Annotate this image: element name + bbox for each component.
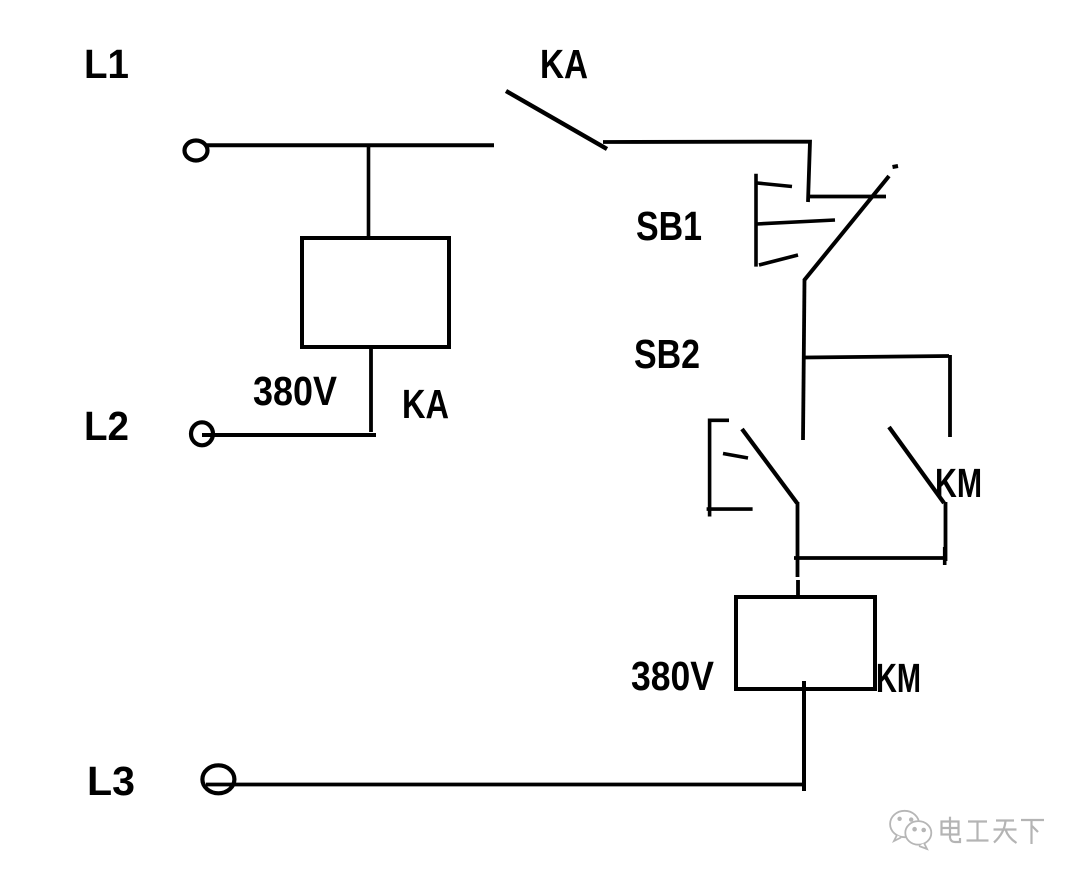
watermark text 电工天下 <box>942 817 1045 844</box>
terminal L1 <box>185 141 208 161</box>
svg-text:KM: KM <box>876 655 921 701</box>
contact KM blade <box>889 427 944 503</box>
SB1 button actuator <box>756 174 835 267</box>
wire SB2 to KM coil <box>796 502 800 577</box>
wire KA contact to SB1 <box>603 142 810 202</box>
svg-text:KA: KA <box>540 41 588 87</box>
SB1 blade tip tick <box>893 166 899 167</box>
svg-text:L3: L3 <box>87 758 135 804</box>
char 天 <box>994 821 1017 844</box>
SB2 blade <box>742 429 797 503</box>
wire L3 horizontal <box>206 783 805 787</box>
wire below KM contact <box>944 502 948 561</box>
wire SB1 to SB2 vertical <box>803 279 805 440</box>
contact KA blade <box>506 91 607 149</box>
svg-text:KA: KA <box>402 381 449 427</box>
wire junction drop to KA coil <box>367 145 371 240</box>
svg-text:L2: L2 <box>84 403 129 449</box>
terminal L3 <box>202 765 234 793</box>
wire KM coil to L3 <box>802 681 806 791</box>
svg-text:380V: 380V <box>253 368 338 414</box>
SB1 fixed contact horizontal <box>807 195 886 199</box>
SB1 blade <box>804 176 889 281</box>
wire L1 horizontal <box>207 143 494 147</box>
svg-text:L1: L1 <box>84 41 129 87</box>
wire L2 horizontal <box>202 433 376 437</box>
bottom junction right end tick <box>943 547 947 565</box>
wire bottom junction horizontal <box>794 556 945 560</box>
SB2 button actuator <box>707 419 753 517</box>
svg-text:KM: KM <box>935 460 982 506</box>
terminal L2 <box>191 422 213 445</box>
contactor coil KM box <box>736 597 875 689</box>
relay coil KA box <box>302 238 449 347</box>
svg-text:380V: 380V <box>631 653 715 699</box>
watermark wechat icon <box>890 811 931 849</box>
svg-text:SB1: SB1 <box>636 203 702 249</box>
wire branch junction horizontal <box>804 356 949 358</box>
wire KA coil to L2 <box>369 347 373 432</box>
wire KM branch vertical <box>948 355 952 437</box>
char 工 <box>967 822 989 841</box>
char 电 <box>942 817 961 842</box>
char 下 <box>1021 820 1044 844</box>
svg-text:SB2: SB2 <box>634 331 700 377</box>
